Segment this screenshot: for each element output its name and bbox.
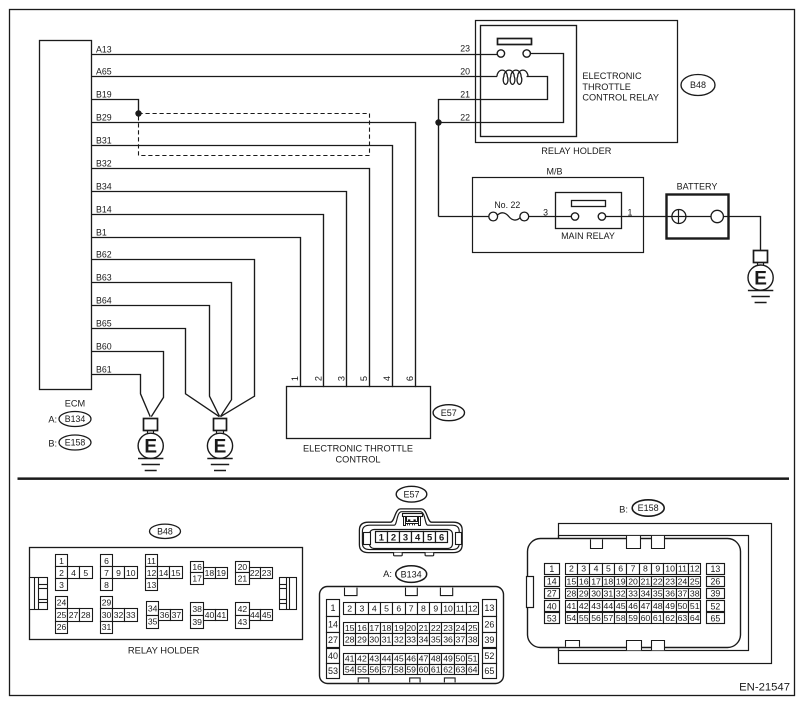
relay contact pin22 circle bbox=[523, 50, 530, 57]
svg-text:49: 49 bbox=[443, 654, 453, 664]
wire battery to ground bbox=[728, 217, 760, 251]
svg-text:B65: B65 bbox=[96, 318, 112, 328]
svg-text:ELECTRONIC THROTTLE: ELECTRONIC THROTTLE bbox=[303, 444, 413, 454]
svg-text:No. 22: No. 22 bbox=[494, 200, 520, 210]
pin label A65 bbox=[96, 66, 112, 76]
svg-text:6: 6 bbox=[396, 604, 401, 614]
svg-text:23: 23 bbox=[262, 568, 272, 578]
svg-text:28: 28 bbox=[567, 589, 577, 599]
wire B65 to ground G2 bbox=[92, 329, 220, 417]
wire A13 to relay pin 23 bbox=[92, 54, 498, 56]
pin label B19 bbox=[96, 89, 112, 99]
svg-text:A:: A: bbox=[48, 414, 57, 424]
pin label 22 bbox=[460, 112, 470, 122]
svg-text:17: 17 bbox=[192, 574, 202, 584]
svg-text:53: 53 bbox=[547, 613, 557, 623]
svg-text:2: 2 bbox=[59, 568, 64, 578]
label ELECTRONIC THROTTLE CONTROL bbox=[303, 444, 413, 465]
wire B63 to ground G2 bbox=[92, 283, 232, 417]
pin label B31 bbox=[96, 135, 112, 145]
svg-text:CONTROL RELAY: CONTROL RELAY bbox=[582, 93, 659, 103]
svg-text:E57: E57 bbox=[403, 489, 419, 499]
svg-text:CONTROL: CONTROL bbox=[336, 454, 381, 464]
svg-text:B29: B29 bbox=[96, 112, 112, 122]
svg-text:47: 47 bbox=[419, 654, 429, 664]
E158 holder bracket bbox=[559, 524, 772, 664]
svg-text:18: 18 bbox=[205, 568, 215, 578]
svg-text:19: 19 bbox=[394, 623, 404, 633]
svg-text:B64: B64 bbox=[96, 295, 112, 305]
wire relay contact to pin 22 bbox=[439, 54, 564, 123]
pin label B34 bbox=[96, 181, 112, 191]
label B: bottom bbox=[619, 503, 628, 514]
svg-text:26: 26 bbox=[711, 577, 721, 587]
svg-text:14: 14 bbox=[159, 568, 169, 578]
svg-text:B61: B61 bbox=[96, 364, 112, 374]
svg-text:24: 24 bbox=[678, 577, 688, 587]
main relay contact bar bbox=[572, 201, 606, 207]
pin label 21 bbox=[460, 90, 470, 100]
svg-text:3: 3 bbox=[581, 564, 586, 574]
svg-text:30: 30 bbox=[102, 610, 112, 620]
svg-text:B14: B14 bbox=[96, 204, 112, 214]
svg-text:56: 56 bbox=[591, 613, 601, 623]
svg-text:34: 34 bbox=[641, 589, 651, 599]
svg-text:62: 62 bbox=[443, 664, 453, 674]
svg-text:5: 5 bbox=[427, 531, 432, 542]
connector E158 pin grid bbox=[527, 536, 741, 650]
svg-text:41: 41 bbox=[345, 654, 355, 664]
svg-text:A65: A65 bbox=[96, 66, 112, 76]
svg-text:E: E bbox=[214, 437, 227, 458]
svg-text:12: 12 bbox=[690, 564, 700, 574]
label B: bbox=[48, 438, 57, 448]
svg-text:39: 39 bbox=[192, 617, 202, 627]
svg-text:11: 11 bbox=[678, 564, 687, 574]
svg-text:4: 4 bbox=[415, 531, 421, 542]
svg-text:1: 1 bbox=[379, 531, 384, 542]
main relay right contact bbox=[598, 213, 605, 220]
svg-text:29: 29 bbox=[357, 635, 367, 645]
svg-text:19: 19 bbox=[616, 577, 626, 587]
junction node pin21/22 bbox=[435, 119, 441, 125]
svg-text:7: 7 bbox=[409, 604, 414, 614]
svg-text:35: 35 bbox=[148, 617, 158, 627]
svg-text:52: 52 bbox=[711, 601, 721, 611]
svg-text:B32: B32 bbox=[96, 158, 112, 168]
pin label 20 bbox=[460, 67, 470, 77]
svg-text:44: 44 bbox=[382, 654, 392, 664]
ground G3 (battery) bbox=[748, 251, 773, 303]
wire B34 to E57 pin 3 bbox=[92, 192, 347, 388]
svg-text:22: 22 bbox=[431, 623, 441, 633]
relay holder outer box bbox=[476, 21, 678, 143]
svg-text:3: 3 bbox=[543, 207, 548, 217]
svg-text:6: 6 bbox=[439, 531, 444, 542]
svg-text:ELECTRONIC: ELECTRONIC bbox=[582, 71, 642, 81]
relay contact bar bbox=[498, 39, 532, 45]
svg-text:47: 47 bbox=[641, 601, 651, 611]
svg-text:60: 60 bbox=[641, 613, 651, 623]
svg-text:2: 2 bbox=[313, 376, 323, 381]
svg-text:BATTERY: BATTERY bbox=[677, 182, 718, 192]
svg-text:22: 22 bbox=[653, 577, 663, 587]
svg-text:49: 49 bbox=[665, 601, 675, 611]
ground G1 (B60/B61) bbox=[138, 419, 163, 471]
svg-text:B60: B60 bbox=[96, 341, 112, 351]
connector B134 oval bbox=[59, 412, 91, 427]
wire B32 to E57 pin 5 bbox=[92, 169, 370, 388]
svg-text:RELAY HOLDER: RELAY HOLDER bbox=[128, 645, 200, 656]
svg-text:39: 39 bbox=[711, 589, 721, 599]
svg-text:3: 3 bbox=[360, 604, 365, 614]
relay holder left tab bbox=[30, 578, 48, 610]
wire B62 to ground G2 bbox=[92, 260, 255, 417]
svg-text:MAIN RELAY: MAIN RELAY bbox=[561, 231, 615, 241]
svg-text:48: 48 bbox=[653, 601, 663, 611]
svg-text:55: 55 bbox=[579, 613, 589, 623]
svg-text:38: 38 bbox=[192, 604, 202, 614]
svg-text:3: 3 bbox=[59, 580, 64, 590]
svg-text:53: 53 bbox=[328, 666, 338, 676]
svg-text:11: 11 bbox=[147, 556, 156, 566]
svg-text:38: 38 bbox=[468, 635, 478, 645]
svg-text:8: 8 bbox=[421, 604, 426, 614]
svg-text:35: 35 bbox=[431, 635, 441, 645]
svg-text:26: 26 bbox=[57, 622, 67, 632]
svg-text:17: 17 bbox=[369, 623, 379, 633]
svg-text:B1: B1 bbox=[96, 227, 107, 237]
svg-text:B48: B48 bbox=[157, 527, 173, 537]
svg-text:1: 1 bbox=[59, 556, 64, 566]
svg-text:45: 45 bbox=[262, 610, 272, 620]
label M/B bbox=[546, 167, 562, 177]
svg-text:B34: B34 bbox=[96, 181, 112, 191]
connector B48 oval top bbox=[681, 75, 715, 96]
svg-text:31: 31 bbox=[102, 622, 112, 632]
svg-text:RELAY HOLDER: RELAY HOLDER bbox=[541, 146, 611, 156]
svg-text:23: 23 bbox=[460, 44, 470, 54]
svg-text:8: 8 bbox=[104, 580, 109, 590]
svg-text:8: 8 bbox=[643, 564, 648, 574]
svg-text:45: 45 bbox=[616, 601, 626, 611]
svg-text:5: 5 bbox=[359, 376, 369, 381]
svg-text:50: 50 bbox=[678, 601, 688, 611]
svg-text:33: 33 bbox=[628, 589, 638, 599]
svg-text:54: 54 bbox=[567, 613, 577, 623]
pin label B65 bbox=[96, 318, 112, 328]
svg-text:27: 27 bbox=[69, 610, 79, 620]
svg-text:M/B: M/B bbox=[546, 167, 562, 177]
svg-text:10: 10 bbox=[443, 604, 453, 614]
svg-text:B:: B: bbox=[48, 438, 57, 448]
svg-text:35: 35 bbox=[653, 589, 663, 599]
svg-text:E57: E57 bbox=[441, 408, 457, 418]
shield dashed box bbox=[139, 114, 370, 156]
svg-text:18: 18 bbox=[604, 577, 614, 587]
svg-text:4: 4 bbox=[594, 564, 599, 574]
battery negative terminal bbox=[711, 210, 723, 222]
svg-text:63: 63 bbox=[456, 664, 466, 674]
pin label B32 bbox=[96, 158, 112, 168]
svg-text:21: 21 bbox=[460, 90, 470, 100]
fuse box M/B bbox=[473, 178, 644, 253]
label No. 22 bbox=[494, 200, 520, 210]
svg-text:32: 32 bbox=[616, 589, 626, 599]
battery box bbox=[667, 195, 729, 239]
wire A65 to relay pin 20 coil bbox=[92, 76, 498, 78]
svg-text:59: 59 bbox=[406, 664, 416, 674]
svg-text:38: 38 bbox=[690, 589, 700, 599]
svg-text:15: 15 bbox=[345, 623, 355, 633]
label EN-21547 bbox=[739, 682, 790, 694]
svg-text:9: 9 bbox=[655, 564, 660, 574]
svg-text:36: 36 bbox=[665, 589, 675, 599]
ground G2 (B62-B65) bbox=[207, 419, 232, 471]
svg-text:61: 61 bbox=[431, 664, 441, 674]
fuse No.22 right circle bbox=[520, 212, 529, 221]
svg-text:61: 61 bbox=[653, 613, 663, 623]
svg-text:29: 29 bbox=[579, 589, 589, 599]
svg-text:9: 9 bbox=[433, 604, 438, 614]
connector E57 oval bottom bbox=[396, 486, 427, 502]
svg-text:B:: B: bbox=[619, 503, 628, 514]
pin label B64 bbox=[96, 295, 112, 305]
svg-text:65: 65 bbox=[711, 613, 721, 623]
svg-text:46: 46 bbox=[406, 654, 416, 664]
svg-text:31: 31 bbox=[382, 635, 392, 645]
svg-text:18: 18 bbox=[382, 623, 392, 633]
label ECM bbox=[65, 399, 85, 409]
ETC relay inner box bbox=[481, 26, 577, 137]
svg-text:31: 31 bbox=[604, 589, 614, 599]
wire B14 to E57 pin 2 bbox=[92, 215, 324, 388]
svg-text:B19: B19 bbox=[96, 89, 112, 99]
svg-text:43: 43 bbox=[591, 601, 601, 611]
connector E57 drawing bbox=[359, 509, 462, 556]
svg-text:33: 33 bbox=[126, 610, 136, 620]
pin label B14 bbox=[96, 204, 112, 214]
svg-text:33: 33 bbox=[406, 635, 416, 645]
svg-text:54: 54 bbox=[345, 664, 355, 674]
svg-text:2: 2 bbox=[569, 564, 574, 574]
svg-text:15: 15 bbox=[567, 577, 577, 587]
svg-text:23: 23 bbox=[665, 577, 675, 587]
svg-text:28: 28 bbox=[345, 635, 355, 645]
svg-text:58: 58 bbox=[616, 613, 626, 623]
junction node B19/B29 shield bbox=[135, 110, 141, 116]
svg-text:B134: B134 bbox=[401, 569, 422, 579]
svg-text:20: 20 bbox=[406, 623, 416, 633]
svg-text:63: 63 bbox=[678, 613, 688, 623]
svg-text:28: 28 bbox=[81, 610, 91, 620]
svg-text:3: 3 bbox=[403, 531, 408, 542]
E57 pin numbers 1 2 3 5 4 6 bbox=[290, 376, 415, 381]
svg-text:16: 16 bbox=[357, 623, 367, 633]
connector B134 pin grid bbox=[320, 587, 504, 684]
svg-text:20: 20 bbox=[628, 577, 638, 587]
ETC box E57 bbox=[287, 387, 431, 439]
svg-text:45: 45 bbox=[394, 654, 404, 664]
svg-text:5: 5 bbox=[384, 604, 389, 614]
svg-text:65: 65 bbox=[484, 666, 494, 676]
svg-text:24: 24 bbox=[456, 623, 466, 633]
svg-text:51: 51 bbox=[690, 601, 700, 611]
label RELAY HOLDER top bbox=[541, 146, 611, 156]
svg-text:B31: B31 bbox=[96, 135, 112, 145]
svg-text:17: 17 bbox=[591, 577, 601, 587]
svg-text:37: 37 bbox=[172, 610, 182, 620]
svg-text:B62: B62 bbox=[96, 249, 112, 259]
svg-text:23: 23 bbox=[443, 623, 453, 633]
wire coil to pin 21 bbox=[439, 77, 548, 217]
svg-text:1: 1 bbox=[549, 564, 554, 574]
svg-text:6: 6 bbox=[104, 556, 109, 566]
wire B19 bbox=[92, 100, 139, 114]
pin label B1 bbox=[96, 227, 107, 237]
connector B134 oval bottom bbox=[396, 566, 427, 583]
svg-text:48: 48 bbox=[431, 654, 441, 664]
svg-text:4: 4 bbox=[382, 376, 392, 381]
svg-text:E158: E158 bbox=[65, 438, 86, 448]
svg-text:1: 1 bbox=[330, 603, 335, 613]
svg-text:42: 42 bbox=[238, 604, 248, 614]
wire B1 to E57 pin 1 bbox=[92, 238, 301, 388]
label BATTERY bbox=[677, 182, 718, 192]
label pin 3 bbox=[543, 207, 548, 217]
svg-text:40: 40 bbox=[547, 601, 557, 611]
svg-text:12: 12 bbox=[468, 604, 478, 614]
pin label 23 bbox=[460, 44, 470, 54]
wire fuse to main relay bbox=[529, 216, 572, 218]
pin label B61 bbox=[96, 364, 112, 374]
svg-text:E158: E158 bbox=[638, 503, 659, 513]
svg-text:E: E bbox=[754, 268, 767, 289]
wire main relay to battery bbox=[606, 216, 667, 218]
svg-text:34: 34 bbox=[419, 635, 429, 645]
svg-text:9: 9 bbox=[116, 568, 121, 578]
svg-text:62: 62 bbox=[665, 613, 675, 623]
svg-text:50: 50 bbox=[456, 654, 466, 664]
svg-text:51: 51 bbox=[468, 654, 478, 664]
svg-text:15: 15 bbox=[171, 568, 181, 578]
svg-text:13: 13 bbox=[147, 580, 157, 590]
pin label B62 bbox=[96, 249, 112, 259]
connector E57 oval top bbox=[433, 405, 464, 421]
svg-text:4: 4 bbox=[372, 604, 377, 614]
svg-text:E: E bbox=[144, 437, 157, 458]
pin label A13 bbox=[96, 44, 112, 54]
svg-text:13: 13 bbox=[711, 564, 721, 574]
svg-text:40: 40 bbox=[328, 651, 338, 661]
svg-text:44: 44 bbox=[604, 601, 614, 611]
svg-text:20: 20 bbox=[460, 67, 470, 77]
svg-text:21: 21 bbox=[641, 577, 651, 587]
section divider bbox=[18, 477, 790, 480]
label A: bottom bbox=[383, 568, 392, 579]
svg-text:27: 27 bbox=[547, 589, 557, 599]
pin label B29 bbox=[96, 112, 112, 122]
svg-text:6: 6 bbox=[405, 376, 415, 381]
svg-text:64: 64 bbox=[468, 664, 478, 674]
relay holder box bottom bbox=[30, 548, 303, 640]
wire B29 to E57 pin 6 bbox=[92, 123, 416, 388]
svg-text:25: 25 bbox=[468, 623, 478, 633]
svg-text:64: 64 bbox=[690, 613, 700, 623]
svg-text:19: 19 bbox=[216, 568, 226, 578]
svg-text:37: 37 bbox=[456, 635, 466, 645]
svg-text:40: 40 bbox=[205, 610, 215, 620]
svg-text:13: 13 bbox=[484, 603, 494, 613]
svg-text:B134: B134 bbox=[65, 414, 86, 424]
svg-text:52: 52 bbox=[484, 651, 494, 661]
svg-text:57: 57 bbox=[382, 664, 392, 674]
svg-text:16: 16 bbox=[579, 577, 589, 587]
svg-text:30: 30 bbox=[369, 635, 379, 645]
svg-text:39: 39 bbox=[484, 635, 494, 645]
svg-text:16: 16 bbox=[192, 562, 202, 572]
battery internal wire bbox=[666, 216, 728, 218]
svg-text:A13: A13 bbox=[96, 44, 112, 54]
label ELECTRONIC THROTTLE CONTROL RELAY bbox=[582, 71, 659, 103]
label RELAY HOLDER bottom bbox=[128, 645, 200, 656]
svg-text:21: 21 bbox=[238, 574, 248, 584]
svg-text:42: 42 bbox=[579, 601, 589, 611]
svg-text:20: 20 bbox=[238, 562, 248, 572]
svg-text:25: 25 bbox=[57, 610, 67, 620]
svg-text:11: 11 bbox=[456, 604, 465, 614]
svg-text:21: 21 bbox=[419, 623, 429, 633]
svg-text:60: 60 bbox=[419, 664, 429, 674]
wire B64 to ground G2 bbox=[92, 306, 220, 417]
svg-text:3: 3 bbox=[336, 376, 346, 381]
svg-text:10: 10 bbox=[126, 568, 136, 578]
fuse No.22 left circle bbox=[489, 212, 498, 221]
label MAIN RELAY bbox=[561, 231, 615, 241]
svg-text:24: 24 bbox=[57, 598, 67, 608]
main relay box bbox=[556, 193, 622, 229]
svg-text:30: 30 bbox=[591, 589, 601, 599]
svg-text:14: 14 bbox=[547, 577, 557, 587]
fuse No.22 element bbox=[498, 213, 520, 220]
svg-text:A:: A: bbox=[383, 568, 392, 579]
svg-text:22: 22 bbox=[250, 568, 260, 578]
connector E158 oval bbox=[59, 435, 91, 450]
svg-text:1: 1 bbox=[290, 376, 300, 381]
svg-text:4: 4 bbox=[71, 568, 76, 578]
svg-text:ECM: ECM bbox=[65, 399, 85, 409]
pin label B63 bbox=[96, 272, 112, 282]
wire B31 to E57 pin 4 bbox=[92, 146, 393, 388]
svg-text:42: 42 bbox=[357, 654, 367, 664]
relay holder pin cells 1-45 bbox=[56, 555, 273, 634]
svg-text:EN-21547: EN-21547 bbox=[739, 682, 790, 694]
svg-text:55: 55 bbox=[357, 664, 367, 674]
svg-text:7: 7 bbox=[631, 564, 636, 574]
svg-text:5: 5 bbox=[606, 564, 611, 574]
pin label B60 bbox=[96, 341, 112, 351]
svg-text:57: 57 bbox=[604, 613, 614, 623]
svg-text:36: 36 bbox=[443, 635, 453, 645]
svg-text:22: 22 bbox=[460, 112, 470, 122]
svg-text:14: 14 bbox=[328, 619, 338, 629]
svg-text:THROTTLE: THROTTLE bbox=[582, 82, 631, 92]
svg-text:37: 37 bbox=[678, 589, 688, 599]
svg-text:58: 58 bbox=[394, 664, 404, 674]
svg-text:59: 59 bbox=[628, 613, 638, 623]
svg-text:29: 29 bbox=[102, 598, 112, 608]
svg-text:41: 41 bbox=[567, 601, 577, 611]
